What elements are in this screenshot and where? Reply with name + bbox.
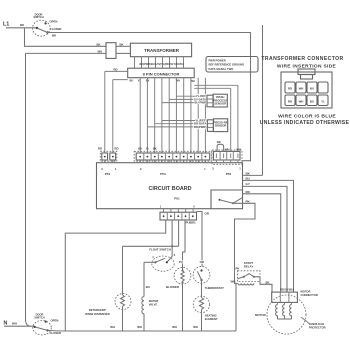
circuit board U1 <box>97 163 243 209</box>
divider line right panel <box>262 25 264 175</box>
door switch S2 open contact <box>45 321 47 323</box>
float switch S3 contacts <box>154 261 156 263</box>
svg-text:BU: BU <box>146 285 150 289</box>
wire S2 to bus <box>48 329 66 332</box>
transformer secondary pins <box>135 57 184 68</box>
svg-text:DATA SIGNAL TWO: DATA SIGNAL TWO <box>209 67 234 71</box>
svg-text:P53: P53 <box>160 172 166 176</box>
connector P51 pads <box>160 212 197 220</box>
svg-text:CIRCUIT BOARD: CIRCUIT BOARD <box>148 186 191 192</box>
svg-text:8 PIN CONNECTOR: 8 PIN CONNECTOR <box>143 71 180 76</box>
svg-text:WH: WH <box>110 325 115 329</box>
wire BU board to motor connector <box>243 180 294 292</box>
svg-text:L1: L1 <box>3 22 9 28</box>
overload protector leader <box>301 317 310 324</box>
svg-text:WATER: WATER <box>149 299 159 303</box>
wire water valve branch <box>143 262 145 296</box>
wire RD board to motor connector <box>243 194 281 292</box>
wire float switch to water valve <box>144 261 155 263</box>
wire P51 pin4 stub <box>178 220 180 246</box>
svg-text:RINSE DISPENSER: RINSE DISPENSER <box>85 312 110 316</box>
door switch S2 enclosure <box>33 321 52 335</box>
wire L1 feed <box>6 27 37 29</box>
svg-text:BU-PWR: BU-PWR <box>195 101 207 105</box>
door switch S1 closed contact <box>46 31 48 33</box>
float switch S3 enclosure <box>152 256 174 271</box>
svg-text:MOTOR: MOTOR <box>301 289 311 293</box>
heating element enclosure <box>193 296 209 312</box>
svg-text:WH: WH <box>193 325 198 329</box>
transformer T1 <box>130 43 191 57</box>
connector P52 dashed outline <box>212 150 242 164</box>
svg-text:THERMOSTAT: THERMOSTAT <box>205 286 224 290</box>
start relay K2 contacts <box>243 276 245 278</box>
connector P54 pads <box>102 153 108 160</box>
motor windings common <box>278 318 292 320</box>
svg-text:REF REFERENCE GROUND: REF REFERENCE GROUND <box>209 63 244 67</box>
svg-text:SWITCH: SWITCH <box>33 15 43 19</box>
thermostat S4 blade <box>197 271 201 280</box>
svg-text:YL: YL <box>138 79 142 83</box>
wire water valve to bus <box>143 314 145 331</box>
float switch S3 blade <box>155 258 165 262</box>
svg-text:ELEMENT: ELEMENT <box>205 317 218 321</box>
pressure sensor U3 <box>213 119 227 132</box>
svg-text:CLOSED: CLOSED <box>50 331 62 335</box>
note box legend <box>206 57 258 73</box>
svg-text:WH: WH <box>225 147 230 151</box>
detergent dispenser R1 element <box>121 295 125 306</box>
svg-text:RD: RD <box>114 68 118 72</box>
wire neutral bus <box>65 330 236 332</box>
wire OR from P51 to thermostat <box>197 212 203 267</box>
svg-text:HEATING: HEATING <box>205 314 217 318</box>
svg-text:OPEN: OPEN <box>51 318 59 322</box>
wire PK board to start relay <box>233 203 255 283</box>
motor M1 windings <box>276 304 278 319</box>
motor enclosure <box>267 295 306 334</box>
node junction <box>171 245 173 247</box>
wire P51 pin3 to float/dispenser <box>167 220 172 262</box>
wire fuse box to transformer WH <box>116 52 130 54</box>
svg-text:WH: WH <box>299 99 304 103</box>
svg-text:CONNECTOR: CONNECTOR <box>301 293 318 297</box>
svg-text:FLOAT SWITCH: FLOAT SWITCH <box>149 247 171 251</box>
svg-text:GY: GY <box>246 182 250 186</box>
wire WH neutral to fuse box <box>26 52 107 54</box>
svg-text:P54: P54 <box>105 172 111 176</box>
wire dispenser branch <box>122 246 124 295</box>
door switch S2 common contact <box>34 326 36 328</box>
wires WH to P52 <box>194 85 238 151</box>
connector cell BU <box>307 95 317 106</box>
svg-text:WH: WH <box>172 325 177 329</box>
svg-text:CLOSED: CLOSED <box>50 27 62 31</box>
wire fuse to transformer BK <box>116 45 130 47</box>
svg-text:WH: WH <box>137 325 142 329</box>
wire WH left vertical to N <box>26 53 31 326</box>
wire P51 pin2 neutral loop <box>65 220 165 331</box>
svg-text:YL: YL <box>321 99 325 103</box>
wire thermostat to heater <box>201 280 203 298</box>
svg-text:WH: WH <box>12 322 17 326</box>
svg-text:SENSOR: SENSOR <box>215 124 227 128</box>
connector cell WH <box>296 82 306 93</box>
connector cell WH <box>296 95 306 106</box>
connector P53 pads <box>136 153 210 160</box>
fuse box F1 <box>106 43 116 59</box>
wire YL REF to pressure sensor <box>162 120 207 122</box>
connector cell RD <box>285 82 295 93</box>
svg-text:OPEN: OPEN <box>50 19 58 23</box>
relay K1 contact <box>219 199 221 201</box>
start relay K2 coil <box>238 283 254 285</box>
svg-text:BK: BK <box>265 281 269 285</box>
svg-text:WH: WH <box>236 147 241 151</box>
wire GY board to motor connector <box>243 186 288 292</box>
svg-text:BK: BK <box>97 42 101 46</box>
svg-text:RD: RD <box>288 99 292 103</box>
svg-text:BK: BK <box>153 147 157 151</box>
relay K1 on board outline <box>211 190 243 209</box>
svg-text:PU: PU <box>179 260 183 264</box>
blower enclosure <box>174 267 191 284</box>
svg-text:BLOWER: BLOWER <box>166 285 180 289</box>
wire OR-DATA to pressure sensor <box>155 123 208 125</box>
svg-text:RD(PWR)BU(+5V)YL(REF)GY(DATA): RD(PWR)BU(+5V)YL(REF)GY(DATA) <box>140 62 184 66</box>
svg-text:VALVE: VALVE <box>149 302 158 306</box>
connector P52 pads <box>214 151 241 160</box>
thermostat enclosure <box>193 266 210 283</box>
connector cell BU <box>307 82 317 93</box>
door switch S1 open contact <box>45 22 47 24</box>
svg-text:N: N <box>4 320 8 326</box>
svg-text:P51: P51 <box>174 197 180 201</box>
svg-text:BU: BU <box>310 87 314 91</box>
svg-text:PROTECTOR: PROTECTOR <box>309 325 326 329</box>
wire BK top run to P52 <box>48 33 251 161</box>
transformer connector J2 body <box>281 72 332 108</box>
wire heater to bus <box>201 309 203 331</box>
svg-text:RD: RD <box>288 87 292 91</box>
svg-text:WH: WH <box>299 87 304 91</box>
svg-text:TRANSFORMER: TRANSFORMER <box>144 48 180 53</box>
transformer connector J2 tab <box>298 69 315 75</box>
wire BK board to divider <box>243 174 263 176</box>
connector wash process sensor <box>207 95 213 107</box>
connector cell blank <box>318 82 328 93</box>
heating element R2 <box>199 298 203 310</box>
door switch S2 blade <box>35 327 48 331</box>
svg-text:RD: RD <box>98 147 102 151</box>
svg-text:TRANSFORMER CONNECTOR: TRANSFORMER CONNECTOR <box>261 56 343 62</box>
wires connector to motor windings <box>278 302 292 304</box>
connector pressure sensor <box>207 120 213 132</box>
connector cell RD <box>285 95 295 106</box>
svg-text:PWR POWER: PWR POWER <box>209 58 226 62</box>
svg-text:RD(PWR): RD(PWR) <box>194 125 206 129</box>
door switch S1 enclosure <box>33 20 51 36</box>
svg-text:SENSOR: SENSOR <box>214 102 226 106</box>
door switch S1 common contact <box>36 27 38 29</box>
connector P51 pins <box>164 209 194 212</box>
svg-text:MOTOR: MOTOR <box>255 313 267 317</box>
door switch S1 blade <box>37 28 48 33</box>
svg-text:BU: BU <box>130 79 134 83</box>
svg-text:BU: BU <box>310 99 314 103</box>
svg-text:YL: YL <box>146 147 150 151</box>
wire GY-DATA to wash sensor <box>169 98 207 100</box>
jumper BK on P52 <box>217 144 224 151</box>
connector P53 dashed outline <box>134 151 212 161</box>
svg-text:RELAY: RELAY <box>244 265 254 269</box>
wire dispenser to bus <box>122 306 124 331</box>
svg-text:DETERGENT/: DETERGENT/ <box>89 308 107 312</box>
connector P54 dashed outline <box>100 151 117 161</box>
door switch S2 closed contact <box>46 329 48 331</box>
wire distribution horizontal <box>123 245 179 247</box>
connector cell YL <box>318 95 328 106</box>
svg-text:RD: RD <box>114 147 118 151</box>
wire N feed <box>4 325 35 327</box>
svg-text:WH: WH <box>98 50 103 54</box>
wire P51 pin5 to blower <box>183 220 186 269</box>
wire YL-REF to wash sensor <box>176 95 207 97</box>
wire blower to bus <box>182 285 184 331</box>
svg-text:BU: BU <box>138 147 142 151</box>
wire BK relay to motor connector <box>260 277 272 292</box>
svg-text:PU(BR): PU(BR) <box>186 221 196 225</box>
thermostat S4 contacts <box>200 269 202 271</box>
wire RD PWR to pressure sensor <box>148 126 208 128</box>
svg-text:WH: WH <box>230 280 235 284</box>
svg-text:P52: P52 <box>226 172 232 176</box>
wire L1 branch down to fuse <box>25 28 107 47</box>
wires 8-pin connector to P53 <box>140 78 205 153</box>
water valve L1 coil <box>142 297 144 314</box>
wire BU-PWR to wash sensor <box>162 102 207 104</box>
svg-text:WIRE COLOR IS BLUE: WIRE COLOR IS BLUE <box>278 113 336 119</box>
svg-text:SWITCH: SWITCH <box>34 315 44 319</box>
blower M2 element <box>182 270 184 272</box>
svg-text:RD/GY/BU: RD/GY/BU <box>280 288 294 292</box>
detergent dispenser enclosure <box>115 294 131 310</box>
motor connector J1 <box>272 292 298 302</box>
start relay K2 enclosure <box>238 271 261 282</box>
svg-text:BK: BK <box>120 42 124 46</box>
svg-text:OVERLOAD: OVERLOAD <box>309 322 324 326</box>
svg-text:UNLESS INDICATED OTHERWISE: UNLESS INDICATED OTHERWISE <box>260 120 350 126</box>
wash process sensor U2 <box>213 94 227 107</box>
connector 8-pin <box>128 68 195 78</box>
wire P54 RD feeds <box>105 71 128 153</box>
wire WH bus to relay <box>236 283 238 331</box>
